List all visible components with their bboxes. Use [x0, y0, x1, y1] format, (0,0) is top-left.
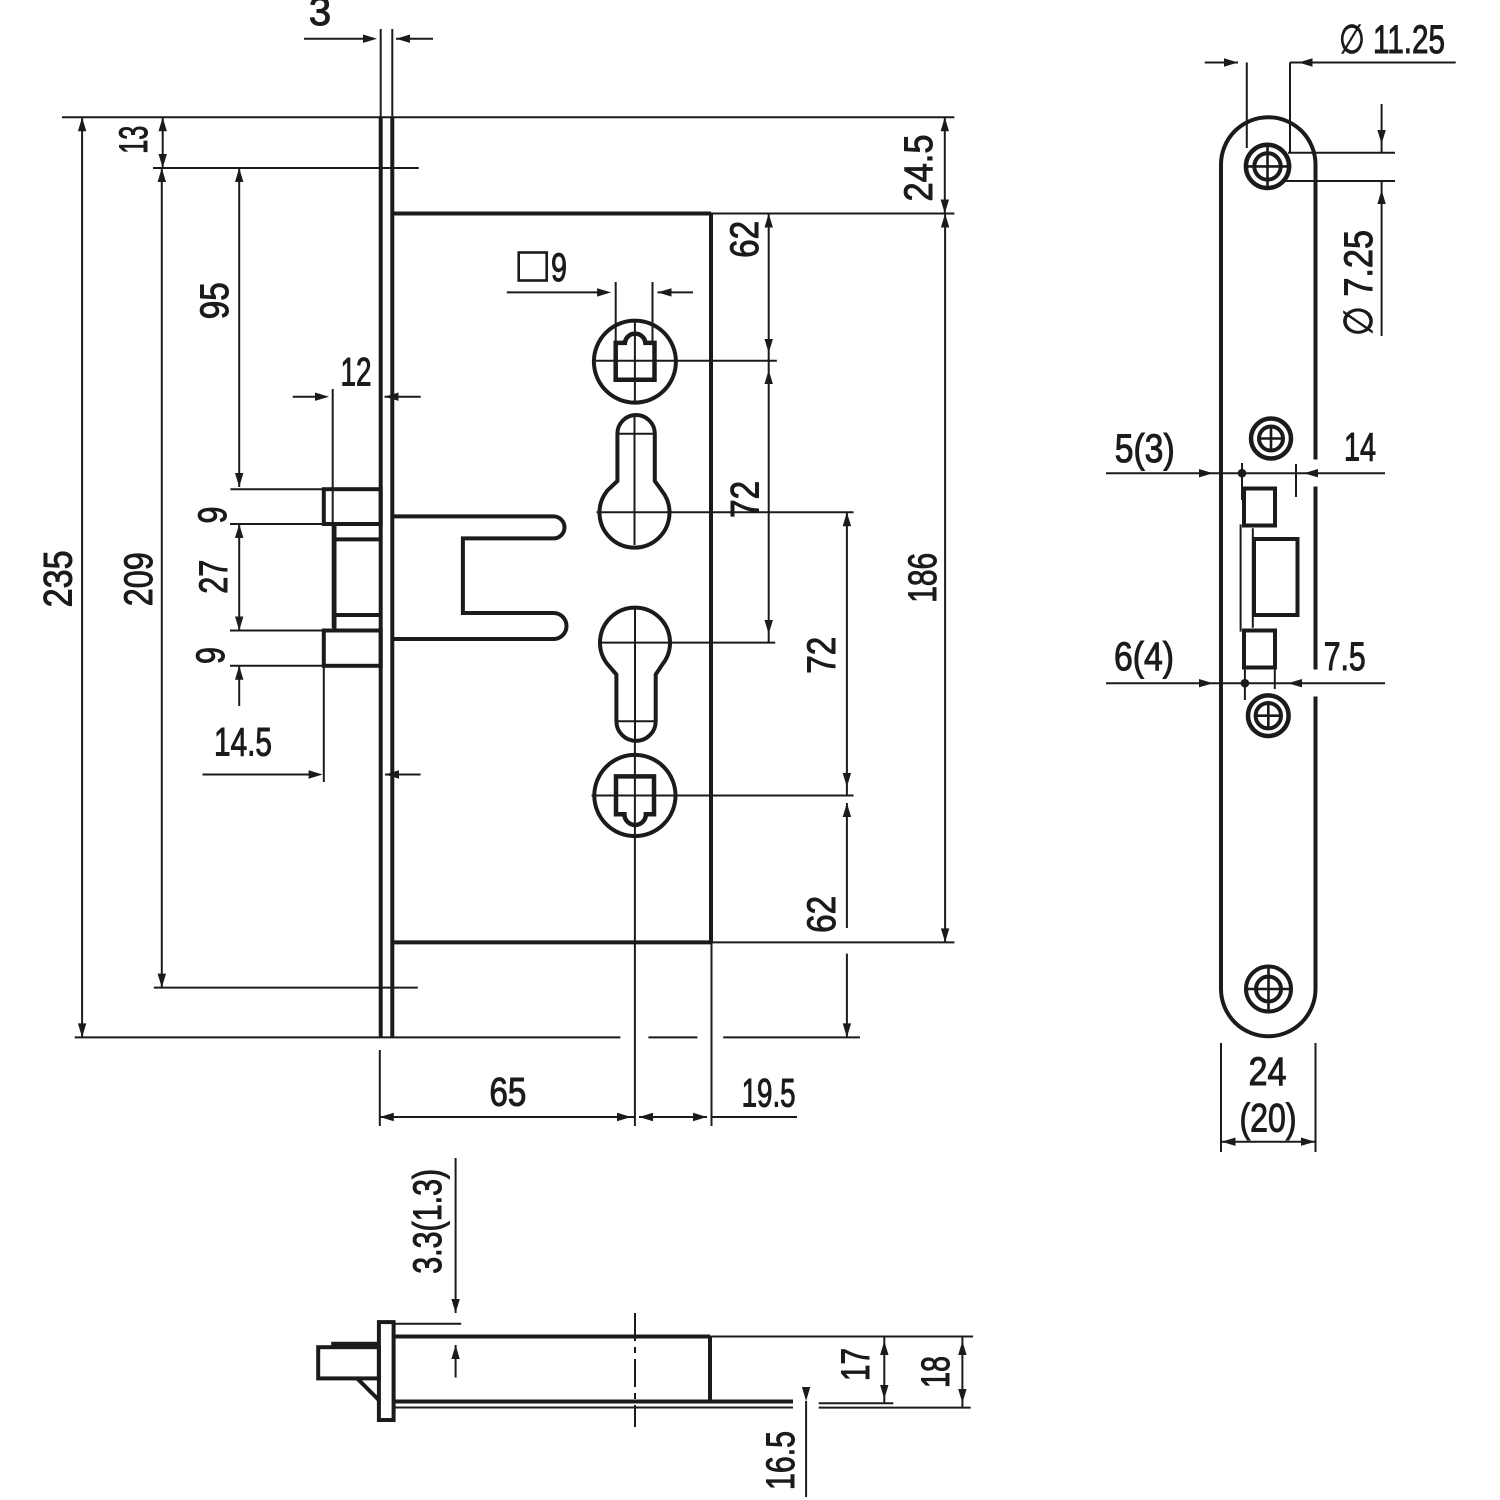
- diameter 7.25 dimension lines: [1377, 104, 1385, 336]
- dimension 18 label: [914, 1356, 958, 1388]
- cylinder hole lower crosshair: [598, 608, 775, 740]
- svg-text:72: 72: [723, 481, 767, 518]
- dimension 13 line: [159, 117, 167, 168]
- diameter 7.25 label: [1337, 230, 1381, 336]
- plate bottom reference line: [75, 1036, 860, 1038]
- dimension 24 line: [1221, 1138, 1316, 1146]
- case bottom extension line: [711, 941, 954, 943]
- faceplate front top arc: [1221, 117, 1316, 164]
- latch tab bottom extension line: [230, 665, 324, 667]
- dimension 27 label: [192, 560, 236, 594]
- dimension 14 label: [1344, 426, 1376, 470]
- bottom view case right edge: [708, 1337, 712, 1402]
- svg-text:6(4): 6(4): [1114, 635, 1174, 679]
- dimension 24 label: [1249, 1050, 1287, 1094]
- dimension 209 line: [158, 168, 166, 988]
- window left edge lines: [1241, 524, 1253, 631]
- 209 end reference line: [154, 987, 418, 989]
- dimension 14.5 extension line: [323, 666, 325, 782]
- dimension 72 second line: [843, 512, 851, 795]
- bottom view case bottom edge: [394, 1400, 793, 1404]
- svg-text:24.5: 24.5: [897, 135, 941, 202]
- latch body line lower: [335, 613, 381, 617]
- svg-text:9: 9: [551, 246, 567, 290]
- svg-text:14.5: 14.5: [214, 721, 272, 765]
- bottom view cover plate line: [394, 1407, 793, 1409]
- svg-text:∅ 11.25: ∅ 11.25: [1339, 18, 1445, 62]
- dimension 9 bottom arrow: [235, 666, 243, 706]
- latch lower tab: [324, 631, 381, 666]
- dimension 62 bottom label: [800, 896, 844, 933]
- square follower bottom square: [616, 776, 654, 825]
- dimension 17 line: [880, 1337, 888, 1404]
- cylinder hole upper outline: [599, 415, 669, 548]
- dimension 12 extension line: [332, 389, 334, 628]
- dimension 19.5 label: [742, 1072, 796, 1116]
- dot tick line 2: [1244, 666, 1246, 700]
- svg-text:13: 13: [112, 126, 156, 154]
- dimension 13 label: [112, 126, 156, 154]
- svg-text:65: 65: [489, 1071, 526, 1115]
- screw hole upper middle: [1251, 419, 1291, 459]
- dimension 6(4) label: [1114, 635, 1174, 679]
- diameter 11.25 extension lines: [1247, 63, 1290, 154]
- bottom view latch top line: [331, 1342, 379, 1346]
- square 9 extension lines: [616, 282, 653, 343]
- svg-text:9: 9: [191, 507, 235, 524]
- dimension 72 first line: [765, 361, 773, 642]
- dimension 9 top label: [191, 507, 235, 524]
- dimension 7.5 label: [1324, 635, 1366, 679]
- case right edge extension line: [711, 942, 713, 1126]
- dimension 24.5 line: [941, 117, 949, 213]
- latch tab top extension line: [230, 488, 323, 490]
- latch body line upper: [335, 537, 381, 541]
- svg-text:3: 3: [309, 0, 331, 34]
- dimension 72 second label: [800, 637, 844, 674]
- dimension 14 extension line: [1295, 464, 1297, 497]
- bottom view faceplate bar: [379, 1322, 394, 1420]
- latch tab extension line 2: [230, 523, 335, 525]
- svg-text:12: 12: [341, 350, 372, 394]
- dimension 65 label: [489, 1071, 526, 1115]
- dimension 17 label: [834, 1348, 878, 1381]
- bottom view bottom extension lines: [819, 1403, 971, 1407]
- lock case bottom edge: [392, 940, 711, 944]
- window upper tab: [1244, 489, 1275, 526]
- svg-text:209: 209: [117, 552, 161, 606]
- faceplate front left edge: [1219, 165, 1223, 990]
- square follower bottom circle: [594, 755, 675, 836]
- dimension 209 label: [117, 552, 161, 606]
- faceplate thickness extension lines: [381, 29, 393, 117]
- svg-text:95: 95: [193, 282, 237, 319]
- latch upper tab: [324, 489, 381, 524]
- latch body left edge: [333, 524, 337, 631]
- svg-text:235: 235: [37, 550, 81, 607]
- dimension 3 label: [309, 0, 331, 34]
- cylinder hole lower chord line: [616, 720, 655, 722]
- diameter 7.25 extension lines: [1284, 153, 1395, 181]
- plate top reference short line: [395, 1323, 462, 1325]
- screw hole bottom: [1245, 965, 1293, 1013]
- dimension 16.5 label: [759, 1431, 803, 1490]
- bottom view latch bolt: [318, 1347, 379, 1378]
- svg-text:3.3(1.3): 3.3(1.3): [406, 1169, 450, 1274]
- latch tab extension line 3: [230, 630, 335, 632]
- square 9 dimension lines: [507, 288, 693, 296]
- dimension 95 line: [235, 168, 243, 487]
- bottom view latch bevel: [357, 1378, 380, 1401]
- square follower top circle: [594, 321, 676, 403]
- svg-text:9: 9: [189, 647, 233, 664]
- bottom view case top edge: [394, 1335, 710, 1339]
- dimension 27 line: [235, 524, 243, 631]
- dimension 6(4) 7.5 line: [1106, 679, 1385, 688]
- square symbol 9 label: [519, 246, 567, 290]
- dimension 3.3(1.3) label: [406, 1169, 450, 1274]
- svg-text:19.5: 19.5: [742, 1072, 796, 1116]
- svg-text:62: 62: [723, 221, 767, 258]
- dimension 186 line: [941, 214, 949, 943]
- dimension 24 extension lines: [1221, 1043, 1316, 1152]
- diameter 11.25 label: [1339, 18, 1445, 62]
- 13 offset reference line: [153, 167, 419, 169]
- dimension 186 label: [901, 553, 945, 603]
- dimension 16.5 line: [802, 1387, 810, 1497]
- dimension 72 first label: [723, 481, 767, 518]
- dimension 235 label: [37, 550, 81, 607]
- svg-text:24: 24: [1249, 1050, 1287, 1094]
- svg-text:72: 72: [800, 637, 844, 674]
- square follower bottom crosshair: [592, 741, 854, 1126]
- dimension 62 top line: [765, 214, 773, 362]
- dimension 62 bottom line: [843, 803, 851, 1037]
- dimension 3 lines: [304, 35, 433, 43]
- dimension 12 lines: [293, 393, 421, 401]
- svg-text:62: 62: [800, 896, 844, 933]
- dimension 14.5 lines: [203, 770, 421, 778]
- cylinder hole lower outline: [600, 608, 670, 741]
- svg-text:27: 27: [192, 560, 236, 594]
- dimension 9 bottom label: [189, 647, 233, 664]
- faceplate side view right edge: [390, 117, 394, 1037]
- dimension 5(3) 14 line: [1106, 469, 1385, 478]
- svg-text:5(3): 5(3): [1115, 427, 1175, 471]
- screw hole top: [1245, 144, 1292, 190]
- svg-text:(20): (20): [1240, 1097, 1297, 1141]
- svg-text:18: 18: [914, 1356, 958, 1388]
- dimension 95 label: [193, 282, 237, 319]
- bottom view center line: [634, 1313, 636, 1427]
- cylinder hole upper chord line: [617, 433, 654, 435]
- lock case top edge: [392, 212, 711, 216]
- dimension 62 top label: [723, 221, 767, 258]
- dimension 3.3(1.3) lines: [451, 1158, 459, 1378]
- svg-text:186: 186: [901, 553, 945, 603]
- window lower tab: [1244, 631, 1275, 668]
- dimension 14.5 label: [214, 721, 272, 765]
- svg-text:17: 17: [834, 1348, 878, 1381]
- dimension 5(3) label: [1115, 427, 1175, 471]
- svg-text:16.5: 16.5: [759, 1431, 803, 1490]
- window bolt body: [1254, 539, 1298, 615]
- lock plate top reference line: [62, 116, 954, 118]
- faceplate front right edge: [1314, 165, 1318, 990]
- cylinder hole upper crosshair: [597, 415, 854, 545]
- lock case right edge: [709, 214, 713, 943]
- dimension 19.5 line: [639, 1113, 797, 1121]
- diameter 11.25 dimension lines: [1205, 58, 1456, 66]
- dimension (20) label: [1240, 1097, 1297, 1141]
- square follower top crosshair: [596, 321, 777, 403]
- plate left edge extension line: [379, 1050, 381, 1126]
- fork slot outline: [394, 516, 567, 639]
- dimension 24.5 label: [897, 135, 941, 202]
- svg-text:14: 14: [1344, 426, 1376, 470]
- dimension 235 line: [78, 117, 86, 1037]
- dot tick line: [1241, 463, 1243, 500]
- dimension 65 line: [380, 1113, 635, 1121]
- faceplate side view left edge: [379, 117, 383, 1037]
- bottom view case top extension: [710, 1336, 973, 1338]
- svg-text:7.5: 7.5: [1324, 635, 1366, 679]
- svg-text:∅ 7.25: ∅ 7.25: [1337, 230, 1381, 336]
- dimension 7.5 extension line: [1274, 666, 1276, 689]
- square follower top square: [616, 334, 655, 380]
- dimension 18 line: [958, 1337, 966, 1408]
- faceplate front bottom arc: [1221, 989, 1316, 1036]
- dimension 12 label: [341, 350, 372, 394]
- screw hole lower middle: [1248, 695, 1289, 736]
- case top extension line: [711, 213, 954, 215]
